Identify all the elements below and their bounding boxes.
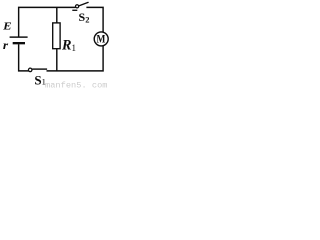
svg-text:manfen5. com: manfen5. com: [45, 80, 108, 88]
wire top-left: left rail upper + top wire to S2: [19, 7, 76, 36]
wire bottom-left segment + left rail lower: [19, 44, 29, 71]
wire resistor branch upper stub: [56, 7, 58, 22]
artifact bar below S2: [72, 10, 77, 11]
battery E plate short thick (negative): [13, 42, 25, 44]
svg-text:M: M: [96, 32, 105, 46]
switch S1 hinge circle: [28, 68, 32, 72]
label E: [2, 22, 12, 32]
wire top-right: fixed contact to top-right corner, down to motor: [86, 7, 103, 32]
wire motor-bottom to corner and bottom wire right segment: [47, 46, 104, 71]
switch S2 hinge circle: [76, 5, 79, 8]
svg-text:r: r: [3, 40, 9, 52]
svg-text:E: E: [2, 22, 12, 32]
battery E plate long (positive): [10, 36, 28, 37]
motor M circle: [94, 32, 108, 46]
switch S1 blade: [32, 68, 47, 70]
resistor R1 box: [53, 23, 60, 49]
wire resistor branch lower stub: [56, 49, 58, 71]
switch S2 blade: [79, 2, 88, 6]
